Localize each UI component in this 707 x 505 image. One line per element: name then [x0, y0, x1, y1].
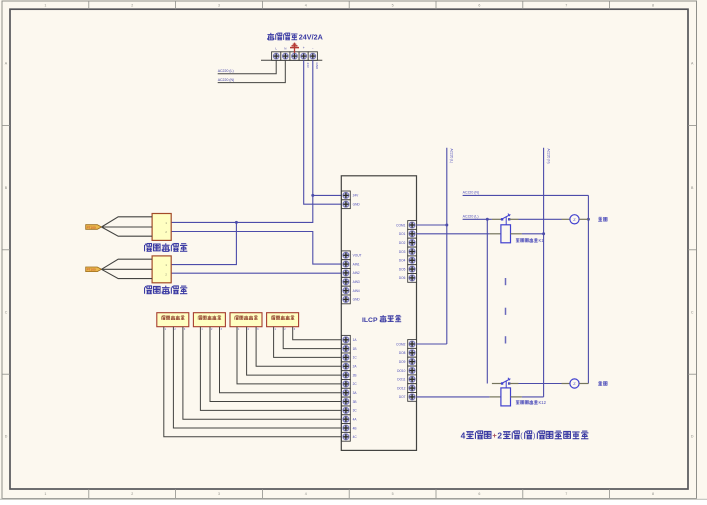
- wire power GND to controller: [304, 60, 342, 204]
- svg-text:5: 5: [392, 4, 394, 8]
- terminal DO9 (right): [408, 357, 417, 366]
- wire COM2 to L rail: [417, 343, 447, 345]
- terminal DO6 (right): [408, 274, 417, 283]
- wire sensor lead: [173, 327, 341, 428]
- net label AC220 (L) rotated: [450, 149, 454, 164]
- terminal 4B (left): [342, 424, 351, 433]
- svg-text:DO9: DO9: [399, 360, 406, 364]
- temperature sensor S4 box: [267, 313, 299, 327]
- junction node K1 coil/N rail: [542, 232, 545, 235]
- contact-coil link: [505, 217, 507, 225]
- svg-text:1B: 1B: [353, 347, 357, 351]
- wire sensor lead: [164, 327, 342, 437]
- transmitter U2 sensor wires: [102, 259, 153, 269]
- wire sensor lead: [274, 327, 342, 358]
- terminal 3B (left): [342, 397, 351, 406]
- wire sensor lead: [293, 327, 342, 340]
- svg-text:D: D: [5, 435, 8, 439]
- pin segment: [509, 218, 518, 220]
- wire K12 coil to N rail: [522, 396, 544, 398]
- terminal DO11 (right): [408, 375, 417, 384]
- terminal 1A (left): [342, 335, 351, 344]
- terminal 4A (left): [342, 415, 351, 424]
- svg-text:1: 1: [44, 492, 46, 496]
- terminal VOUT (left): [342, 251, 351, 260]
- svg-text:6: 6: [478, 4, 480, 8]
- terminal 3A (left): [342, 388, 351, 397]
- terminal DO10 (right): [408, 366, 417, 375]
- K12 coil pin: [490, 396, 501, 398]
- load lamp symbol: [570, 215, 579, 224]
- svg-text:3: 3: [218, 492, 220, 496]
- svg-text:8: 8: [652, 492, 654, 496]
- svg-text:3C: 3C: [353, 409, 358, 413]
- wire sensor lead: [283, 327, 341, 349]
- wire vertical L rail (COM bus): [446, 148, 448, 344]
- svg-text:AIN3: AIN3: [353, 280, 360, 284]
- svg-text:COM2: COM2: [396, 342, 405, 346]
- svg-text:7: 7: [565, 492, 567, 496]
- temperature sensor S2 box: [193, 313, 225, 327]
- svg-text:24V: 24V: [306, 63, 310, 68]
- svg-text:DO6: DO6: [399, 276, 406, 280]
- wire sensor lead: [256, 327, 341, 367]
- pin segment: [509, 383, 518, 385]
- wire sensor lead: [220, 327, 342, 393]
- terminal 24V (left): [342, 191, 351, 200]
- svg-text:PT100: PT100: [87, 268, 96, 272]
- junction node supply branch: [235, 221, 238, 224]
- svg-text:DO8: DO8: [399, 351, 406, 355]
- wire AC220 N feed line: [463, 194, 589, 196]
- svg-text:AC220 (L): AC220 (L): [218, 69, 234, 73]
- terminal 2B (left): [342, 371, 351, 380]
- svg-text:4: 4: [461, 430, 466, 440]
- svg-text:2B: 2B: [353, 373, 357, 377]
- load lamp pin: [562, 383, 570, 385]
- svg-text:GND: GND: [353, 298, 361, 302]
- wire DO1 to K1 coil: [417, 233, 490, 235]
- svg-text:4B: 4B: [353, 426, 357, 430]
- power terminal block J1: [261, 59, 322, 61]
- terminal DO12 (right): [408, 384, 417, 393]
- svg-text:DO12: DO12: [397, 386, 406, 390]
- wire AIN2 signal: [171, 272, 341, 274]
- svg-text:2: 2: [497, 430, 502, 440]
- svg-text:AIN1: AIN1: [353, 262, 360, 266]
- svg-text:K1: K1: [539, 238, 545, 243]
- svg-text:DO4: DO4: [399, 259, 406, 263]
- wire contact to load: [519, 218, 562, 220]
- terminal COM2 (right): [408, 340, 417, 349]
- svg-text:7: 7: [565, 4, 567, 8]
- wire sensor lead: [183, 327, 342, 420]
- svg-text:DO7: DO7: [399, 395, 406, 399]
- svg-text:6: 6: [478, 492, 480, 496]
- svg-text:VOUT: VOUT: [353, 254, 362, 258]
- svg-text:24V: 24V: [353, 194, 360, 198]
- load lamp symbol: [570, 379, 579, 388]
- power supply title 开关电源24V/2A: [267, 33, 274, 40]
- net label AC220 (N) rotated: [546, 149, 550, 164]
- terminal DO8 (right): [408, 348, 417, 357]
- svg-text:+: +: [303, 46, 305, 50]
- svg-text:AIN2: AIN2: [353, 271, 360, 275]
- contact-coil link: [505, 381, 507, 388]
- svg-text:DO5: DO5: [399, 267, 406, 271]
- svg-text:5: 5: [392, 492, 394, 496]
- label 交流接触器K1: [516, 239, 520, 243]
- svg-text:3B: 3B: [353, 400, 357, 404]
- wire sensor lead: [247, 327, 342, 375]
- terminal 1B (left): [342, 344, 351, 353]
- wire AC220 L feed line: [463, 218, 492, 220]
- svg-text:COM1: COM1: [396, 223, 405, 227]
- svg-text:4C: 4C: [353, 435, 358, 439]
- svg-text:AC220 (L): AC220 (L): [463, 215, 479, 219]
- wire DO7 to K12 coil: [417, 396, 490, 398]
- terminal AIN2 (left): [342, 269, 351, 278]
- wire AC220 L from power: [218, 60, 277, 74]
- svg-text:K12: K12: [539, 400, 547, 405]
- label 负载: [598, 381, 602, 385]
- svg-text:4: 4: [305, 492, 307, 496]
- svg-text:2C: 2C: [353, 382, 358, 386]
- terminal 2C (left): [342, 380, 351, 389]
- PT100 probe tag 2: [86, 267, 102, 272]
- contactor coil K12: [501, 388, 511, 406]
- wire power 24V rail: [313, 60, 342, 195]
- wire vertical N rail (coil return): [543, 148, 545, 397]
- svg-text:C: C: [5, 310, 8, 314]
- svg-text:D: D: [691, 435, 694, 439]
- svg-text:DO2: DO2: [399, 241, 406, 245]
- svg-text:C: C: [691, 310, 694, 314]
- label 交流接触器K12: [516, 401, 520, 405]
- wire transmitter2 supply branch: [171, 222, 236, 264]
- wire L branch vertical to K12 contact: [486, 219, 488, 383]
- ellipsis dashes (repeated channels): [505, 278, 507, 285]
- temperature sensor S3 box: [230, 313, 262, 327]
- K12 coil pin: [511, 396, 522, 398]
- wire sensor lead: [237, 327, 342, 384]
- wire COM1 to L rail: [417, 224, 447, 226]
- svg-text:N: N: [284, 46, 286, 50]
- transmitter U1 sensor wires: [102, 217, 153, 227]
- wire contact to load: [519, 383, 562, 385]
- svg-text:GND: GND: [353, 203, 361, 207]
- temperature transmitter U2 box: [152, 256, 171, 283]
- svg-text:2: 2: [131, 4, 133, 8]
- svg-text:DO3: DO3: [399, 250, 406, 254]
- rotated labels under power wires: [306, 63, 310, 68]
- temperature transmitter U1 box: [152, 214, 171, 241]
- svg-text:AC220 (N): AC220 (N): [463, 191, 480, 195]
- svg-text:DO10: DO10: [397, 369, 406, 373]
- label 负载: [598, 217, 602, 221]
- label 温度变送器 2: [145, 286, 152, 294]
- pin segment: [492, 218, 501, 220]
- wire K1 coil to N rail: [522, 233, 544, 235]
- terminal DO1 (right): [408, 229, 417, 238]
- terminal 1C (left): [342, 353, 351, 362]
- terminal 3C (left): [342, 406, 351, 415]
- load lamp pin: [579, 383, 588, 385]
- ILCP controller U5 outline: [341, 176, 416, 451]
- svg-text:AIN4: AIN4: [353, 289, 360, 293]
- load lamp pin: [579, 218, 588, 220]
- junction node COM1/L rail: [445, 224, 448, 227]
- wire AIN1 signal: [171, 232, 341, 265]
- svg-text:4: 4: [305, 4, 307, 8]
- terminal AIN4 (left): [342, 286, 351, 295]
- junction node L branch: [486, 218, 489, 221]
- pin segment: [492, 383, 501, 385]
- terminal DO2 (right): [408, 238, 417, 247]
- svg-text:AC220 (N): AC220 (N): [218, 78, 235, 82]
- load lamp pin: [562, 218, 570, 220]
- contact switch: [501, 218, 503, 220]
- earth ground symbol (red): [294, 43, 296, 53]
- PT100 probe tag 1: [86, 225, 102, 230]
- svg-text:-: -: [312, 46, 313, 50]
- K1 coil pin: [490, 233, 501, 235]
- svg-text:GND: GND: [315, 63, 319, 71]
- svg-text:PT100: PT100: [87, 225, 96, 229]
- terminal GND (left): [342, 295, 351, 304]
- terminal GND (left): [342, 200, 351, 209]
- wire sensor lead: [200, 327, 341, 411]
- svg-text:1C: 1C: [353, 356, 358, 360]
- terminal COM1 (right): [408, 221, 417, 230]
- terminal DO5 (right): [408, 265, 417, 274]
- wire AC220 N from power: [218, 60, 286, 82]
- svg-text:DO11: DO11: [397, 378, 405, 382]
- contact switch: [501, 382, 503, 384]
- terminal DO7 (right): [408, 393, 417, 402]
- terminal AIN1 (left): [342, 260, 351, 269]
- svg-text:24V/2A: 24V/2A: [299, 33, 323, 42]
- svg-text:AC220 (N): AC220 (N): [546, 149, 550, 164]
- temperature sensor S1 box: [157, 313, 189, 327]
- junction node load1/N: [587, 218, 590, 221]
- K1 coil pin: [511, 233, 522, 235]
- junction node 24V: [311, 194, 314, 197]
- terminal 4C (left): [342, 432, 351, 441]
- terminal AIN3 (left): [342, 277, 351, 286]
- terminal DO4 (right): [408, 256, 417, 265]
- svg-text:2: 2: [131, 492, 133, 496]
- svg-text:): ): [533, 431, 535, 440]
- svg-text:1: 1: [44, 4, 46, 8]
- label 温度变送器 1: [145, 244, 152, 252]
- wire N feed vertical to loads: [587, 195, 589, 383]
- svg-text:8: 8: [652, 4, 654, 8]
- wire sensor lead: [210, 327, 342, 402]
- terminal 2A (left): [342, 362, 351, 371]
- contactor coil K1: [501, 225, 511, 243]
- svg-text:DO1: DO1: [399, 232, 406, 236]
- svg-text:3: 3: [218, 4, 220, 8]
- svg-text:ILCP: ILCP: [362, 317, 378, 324]
- svg-text:AC220 (L): AC220 (L): [450, 149, 454, 164]
- terminal DO3 (right): [408, 247, 417, 256]
